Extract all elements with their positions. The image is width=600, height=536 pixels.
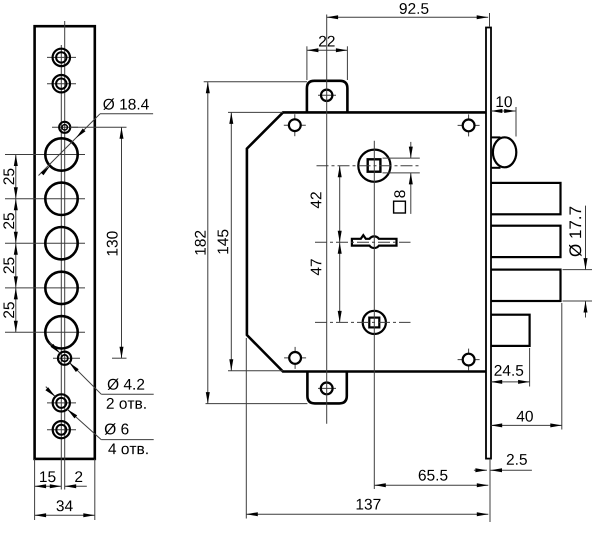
label 47 <box>311 259 322 275</box>
dimension 40 <box>491 303 562 430</box>
dimension 15 <box>35 484 62 488</box>
screw post bottom-right <box>458 349 480 371</box>
handle hub (circle with 8mm square) <box>358 150 390 182</box>
centerline of hole row 3 <box>5 242 85 244</box>
label 25 number 1 <box>3 169 14 185</box>
label 2 <box>75 471 82 482</box>
dimension square 8 <box>383 142 420 214</box>
label 92.5 <box>400 3 429 14</box>
centerline of hole row 4 <box>5 287 85 289</box>
dimension 24.5 <box>491 348 530 387</box>
hole O18.4 number 1 <box>45 138 77 170</box>
hub centerline horizontal <box>317 165 421 167</box>
label 10 <box>497 96 512 107</box>
dimension 47 <box>338 242 342 322</box>
label 40 <box>517 411 533 422</box>
dimension 137 <box>246 338 490 522</box>
label 34 <box>57 500 73 511</box>
keyhole slot profile <box>352 235 397 248</box>
deadbolt pin 3 <box>491 270 561 301</box>
label 24.5 <box>495 365 524 376</box>
label 2.5 <box>507 454 527 465</box>
label O4.2 <box>108 379 145 391</box>
leader O18.4 <box>39 114 154 176</box>
screw hole O6 top 1 <box>47 49 76 66</box>
dimension 2.5 <box>474 468 532 472</box>
dimension 182 <box>204 82 308 404</box>
centerline of hole row 2 <box>5 198 85 200</box>
label 130 <box>107 231 118 255</box>
lower deadbolt <box>491 315 530 346</box>
hole O4.2 bottom <box>53 352 80 365</box>
hole axis line (vertical, 15mm from edge) <box>60 45 62 490</box>
dimension 2 <box>65 484 87 488</box>
dimension O17.7 <box>563 206 593 318</box>
keyhole axis centerline (vertical) <box>373 141 375 489</box>
leader O4.2 2 holes <box>50 343 154 395</box>
bottom tab hole <box>318 383 336 395</box>
dimension 22 <box>307 46 348 80</box>
lower hub (circle with square) <box>363 311 386 334</box>
label 137 <box>357 499 381 510</box>
tab axis centerline (vertical) <box>326 15 328 424</box>
label 65.5 <box>419 470 448 481</box>
centerline of hole row 1 <box>5 154 85 156</box>
extension lines bottom of faceplate <box>35 459 95 520</box>
top mounting tab <box>307 81 348 113</box>
label 4 otv <box>108 444 147 455</box>
label O17.7 <box>569 207 582 257</box>
hole O18.4 number 2 <box>45 183 77 215</box>
screw post top-left <box>284 114 306 136</box>
label 182 <box>195 231 206 255</box>
label O18.4 <box>103 98 149 110</box>
dimension 92.5 <box>327 13 490 27</box>
hole O4.2 top <box>52 122 78 133</box>
centerline of hole row 5 <box>5 331 85 333</box>
label O6 <box>105 423 129 435</box>
faceplate centerline (vertical) <box>64 21 66 490</box>
faceplate edge view (2.5 thick) <box>486 28 491 459</box>
dimension 65.5 <box>374 483 488 487</box>
label 25 number 4 <box>3 302 14 318</box>
dimension 34 <box>35 513 95 517</box>
hole O18.4 number 4 <box>45 272 77 304</box>
lower hub centerline horizontal <box>315 321 411 323</box>
label 42 <box>311 192 322 208</box>
keyhole centerline horizontal <box>315 241 411 243</box>
leader O6 4 holes <box>45 387 153 440</box>
screw hole O6 bottom 2 <box>47 421 76 438</box>
screw post top-right <box>458 114 480 136</box>
screw hole O6 bottom 1 <box>47 394 76 411</box>
screw post bottom-left <box>284 347 306 369</box>
label 145 <box>218 230 229 254</box>
screw hole O6 top 2 <box>47 75 76 92</box>
deadbolt pin 1 <box>491 183 561 214</box>
dimension 10 <box>491 107 516 137</box>
label square 8 <box>394 190 406 213</box>
label 2 otv <box>107 398 146 409</box>
latch bolt (side view) <box>491 137 517 168</box>
label 22 <box>319 36 335 47</box>
faceplate front view outline 34x182 <box>35 26 95 459</box>
label 25 number 3 <box>3 258 14 274</box>
dimension 145 <box>228 112 283 370</box>
hole O18.4 number 3 <box>45 227 77 259</box>
lock body outline <box>247 112 487 371</box>
bottom mounting tab <box>307 372 346 404</box>
dimension chain 25 (vertical line) <box>14 155 18 333</box>
hole O18.4 number 5 <box>45 316 77 348</box>
label 15 <box>40 471 55 482</box>
dimension 130 <box>70 127 127 358</box>
dimension 42 <box>338 166 342 243</box>
top tab hole <box>318 90 336 101</box>
deadbolt pin 2 <box>491 226 561 257</box>
label 25 number 2 <box>3 213 14 229</box>
